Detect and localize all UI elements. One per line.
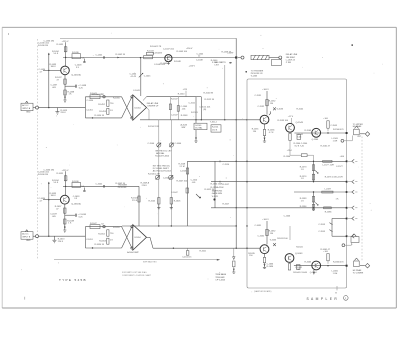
label R-1617 — [223, 204, 230, 206]
page right edge — [395, 27, 397, 308]
resistor R-1613 — [52, 236, 65, 243]
input connector box J2 — [21, 230, 33, 242]
resistor R-1574 — [300, 174, 315, 180]
label R-1508 — [179, 163, 186, 167]
svg-text:C-1631: C-1631 — [255, 225, 262, 227]
wire rail3 — [294, 191, 347, 193]
wire rail1 — [188, 160, 347, 162]
resistor R-1573 — [300, 165, 315, 171]
node op-amp B input + — [131, 226, 133, 228]
node rail A x196 — [195, 119, 196, 120]
label R-1561 — [321, 145, 331, 147]
node rail y248 V2 — [246, 248, 247, 249]
label R-1642 — [116, 183, 126, 185]
value label C-1511 — [189, 102, 196, 104]
wire base B — [49, 199, 61, 201]
svg-text:C-1443: C-1443 — [133, 90, 140, 92]
value label R-1459 — [222, 52, 232, 54]
svg-text:220 K: 220 K — [58, 241, 64, 243]
label C-1565 — [330, 125, 337, 127]
svg-text:150 K: 150 K — [212, 129, 218, 131]
emitter wire A — [64, 75, 65, 99]
svg-text:GATE GEN: GATE GEN — [212, 192, 223, 195]
wire cross A 2 — [122, 97, 132, 118]
label C-1442 — [96, 55, 105, 59]
transistor Q-1534B electrodes — [167, 56, 170, 61]
wire out A vertical2 — [200, 97, 202, 120]
resistor R-1453 — [99, 108, 113, 114]
svg-text:.005: .005 — [52, 216, 57, 218]
label C-1644b — [295, 267, 302, 271]
svg-text:INPUT B: INPUT B — [22, 236, 31, 238]
note parts list — [122, 271, 152, 277]
label R-1520 — [211, 184, 225, 189]
tick rail1 — [219, 160, 221, 162]
svg-text:R-1653: R-1653 — [99, 241, 106, 243]
node output rail box edge — [346, 132, 348, 134]
svg-text:+100: +100 — [323, 251, 328, 253]
switch box S-1511 — [194, 123, 207, 130]
hanging resistor mid A — [169, 97, 171, 120]
svg-text:R-1502 12K: R-1502 12K — [148, 126, 159, 128]
svg-text:V-1533: V-1533 — [277, 108, 284, 110]
svg-text:R-1630 1M: R-1630 1M — [38, 174, 48, 176]
label delay line — [286, 53, 298, 61]
diode V-1633 — [270, 240, 277, 247]
svg-text:C-1565: C-1565 — [330, 125, 337, 127]
resistor R-1636c — [72, 181, 85, 188]
svg-text:DRIVER CF: DRIVER CF — [148, 106, 160, 108]
svg-text:1 UH: 1 UH — [333, 273, 338, 275]
label C-1451 — [86, 110, 93, 112]
resistor R-1647 box — [90, 223, 100, 229]
resistor R-1438 — [64, 90, 75, 96]
svg-text:R-1661 47: R-1661 47 — [321, 249, 331, 251]
value label R-1513 — [191, 112, 198, 114]
value label R-1455 — [113, 97, 120, 99]
svg-text:C-1430 .001: C-1430 .001 — [38, 43, 50, 45]
svg-text:R-1563: R-1563 — [305, 130, 312, 132]
svg-text:SEE PARTS: SEE PARTS — [215, 61, 227, 64]
diode V-1533 — [273, 107, 284, 110]
svg-text:C-1651: C-1651 — [86, 239, 93, 241]
value label C-1577 — [336, 166, 343, 168]
svg-text:V-1633: V-1633 — [270, 240, 277, 242]
label C-1436 — [44, 40, 55, 42]
node rail4 V1 — [236, 207, 237, 208]
svg-text:+225 V: +225 V — [62, 170, 70, 172]
svg-text:R-1547: R-1547 — [171, 99, 178, 101]
svg-text:A-1604 SWP: A-1604 SWP — [127, 251, 139, 254]
page top edge — [2, 26, 396, 28]
value label C-1532 — [258, 106, 265, 108]
stack2 vertical — [313, 192, 315, 211]
svg-text:(B): (B) — [204, 109, 207, 111]
label A-1543 — [181, 123, 188, 128]
svg-text:750: 750 — [110, 103, 114, 105]
node rail A box — [246, 119, 247, 120]
resistor R-1632 — [266, 229, 276, 235]
svg-text:1 K: 1 K — [301, 169, 305, 171]
label C-1446 — [154, 64, 166, 66]
svg-text:R-1644 C-1644: R-1644 C-1644 — [293, 272, 308, 274]
label gnd B — [63, 229, 66, 233]
wire lower output rail — [294, 265, 347, 267]
label R-1433 — [50, 64, 57, 68]
svg-text:Z 186: Z 186 — [286, 62, 292, 64]
arrow H1 — [117, 57, 119, 58]
supply +225V A — [62, 41, 70, 44]
capacitor C-1611 — [182, 248, 192, 258]
supply +22.4 — [287, 150, 293, 152]
title SAMPLER — [307, 297, 338, 301]
supply +100 Q-1564 — [323, 118, 328, 120]
emitter chain lower sampler — [263, 254, 274, 268]
svg-text:R-1430 1M: R-1430 1M — [38, 45, 48, 47]
svg-text:+12 V: +12 V — [288, 116, 294, 118]
svg-text:R-1586: R-1586 — [325, 211, 332, 213]
svg-text:R-1520 220K: R-1520 220K — [211, 184, 223, 186]
wire S-1511 feed — [195, 120, 197, 123]
resistor R-1634s — [52, 176, 67, 184]
svg-text:HF PEAK: HF PEAK — [353, 269, 362, 272]
resistor R-1605 — [170, 198, 181, 204]
svg-text:C-1578: C-1578 — [336, 176, 343, 178]
svg-text:6.25: 6.25 — [79, 216, 84, 218]
svg-text:C-1504: C-1504 — [148, 143, 155, 145]
svg-text:C-1647: C-1647 — [171, 192, 178, 194]
svg-text:C-1514: C-1514 — [223, 164, 230, 166]
svg-text:R-1513: R-1513 — [191, 112, 198, 114]
svg-text:270 K: 270 K — [132, 200, 138, 202]
wire inverter B left — [84, 227, 86, 248]
op-amp U1454 — [133, 95, 147, 121]
wire base A — [49, 69, 61, 71]
svg-text:V-1463: V-1463 — [251, 76, 258, 78]
potentiometer C-1604 — [169, 143, 182, 147]
transistor Q-1434A — [61, 66, 81, 76]
connector J2 jack — [33, 235, 39, 238]
transistor Q-1634A — [60, 195, 81, 205]
emitter parts Q-1643 — [288, 264, 307, 274]
svg-text:4.5-25: 4.5-25 — [131, 76, 138, 78]
wire input B — [39, 235, 86, 237]
svg-text:C-1451: C-1451 — [86, 110, 93, 112]
label C-1445 — [197, 53, 204, 57]
value label C-1632 — [258, 235, 265, 237]
wire out A lower rail — [140, 108, 260, 120]
resistor R-1652 — [98, 230, 114, 236]
trimmer C-1668 — [354, 258, 360, 267]
svg-text:CF V-1663: CF V-1663 — [215, 279, 225, 281]
svg-text:4.7 K: 4.7 K — [269, 132, 274, 134]
resistor R-1436 — [72, 52, 85, 59]
svg-text:AC DC: AC DC — [22, 104, 29, 107]
pin 11 right edge — [346, 234, 358, 238]
label L-1665 — [332, 270, 339, 274]
resistor R-1444 on H1 — [144, 55, 153, 58]
node rail y226 end — [236, 225, 237, 226]
emitter chain upper sampler — [263, 124, 275, 140]
svg-text:R-1459 1K: R-1459 1K — [222, 52, 232, 54]
node rail A delay — [236, 119, 237, 120]
svg-text:C-1511: C-1511 — [189, 102, 196, 104]
svg-text:C-1436 180: C-1436 180 — [44, 40, 55, 42]
svg-text:8.2 K 7-45: 8.2 K 7-45 — [295, 145, 305, 147]
svg-text:R-1448: R-1448 — [174, 61, 181, 63]
svg-text:C-1607 .001: C-1607 .001 — [163, 178, 175, 180]
svg-text:R-1636: R-1636 — [72, 181, 79, 183]
svg-text:C-1611 15: C-1611 15 — [182, 257, 192, 259]
capacitor C-1437 — [51, 85, 58, 89]
value label R-1663 — [305, 262, 312, 264]
wire x224 drop — [224, 65, 226, 120]
svg-text:DELAY LINE: DELAY LINE — [286, 53, 298, 56]
supply +12 Q-1543 — [288, 116, 294, 123]
node inverter B — [92, 247, 93, 248]
label C-1510 — [191, 180, 198, 184]
node gate mesh — [213, 198, 215, 200]
label R-1517 — [223, 184, 230, 186]
connector J1 jack — [33, 106, 39, 109]
trimmer C-1595 — [318, 230, 332, 233]
node lower rail box edge — [346, 265, 348, 267]
svg-text:R-1511: R-1511 — [212, 127, 219, 129]
transistor Q-1534B — [153, 52, 172, 61]
svg-text:Q-1543: Q-1543 — [296, 122, 304, 124]
wire rail4 — [211, 207, 347, 209]
svg-text:INPUT A: INPUT A — [22, 107, 30, 110]
transistor Q-1543 — [286, 122, 304, 132]
svg-text:C-1450: C-1450 — [87, 100, 94, 102]
resistor R-1637 — [55, 206, 66, 213]
value label C-1547 — [171, 114, 178, 116]
svg-text:C-1448: C-1448 — [196, 60, 203, 62]
svg-text:180 K: 180 K — [51, 195, 57, 197]
svg-text:TO LOWER: TO LOWER — [353, 272, 364, 274]
wire S-1511 down — [195, 130, 196, 140]
trimmer box lower — [351, 234, 359, 243]
emitter wire B — [64, 204, 65, 228]
svg-text:R-1612 1K: R-1612 1K — [205, 189, 215, 191]
label trigger pickoff — [251, 70, 264, 77]
wire rail2 — [211, 181, 347, 183]
label C-1630 — [38, 172, 50, 177]
label lower defl — [353, 272, 364, 274]
svg-text:1 K: 1 K — [110, 110, 114, 112]
label C-1578 — [336, 176, 343, 178]
svg-text:C-1447 .001: C-1447 .001 — [163, 48, 175, 50]
connector P-1098 — [269, 56, 282, 59]
svg-text:47: 47 — [57, 79, 60, 81]
wire sweep line — [54, 259, 219, 260]
svg-text:R-1442 1K: R-1442 1K — [116, 54, 126, 56]
stack1 vertical — [313, 161, 315, 181]
svg-text:C-1604: C-1604 — [175, 143, 182, 145]
emitter stub Q-1534B — [161, 62, 170, 65]
svg-text:150: 150 — [249, 255, 253, 257]
svg-text:HF PEAK: HF PEAK — [353, 125, 362, 128]
time base trigger chain — [233, 248, 235, 270]
wire +22 link lower — [289, 226, 291, 240]
label hf comp lower — [353, 269, 362, 272]
transistor Q-1434A electrodes — [64, 68, 67, 73]
node collector A — [65, 57, 66, 58]
wire pot 1 drop — [158, 120, 160, 226]
wire out A jog — [196, 96, 201, 98]
value label C-1647 — [171, 192, 178, 194]
node rail y248 V1 — [236, 248, 237, 249]
label hf comp — [353, 125, 362, 128]
supply +100 upper — [262, 89, 269, 91]
label R-1533 — [278, 120, 289, 122]
wire collector upper sampler — [266, 91, 268, 115]
termination box — [271, 59, 281, 65]
svg-text:C-1630 .001: C-1630 .001 — [38, 172, 50, 174]
svg-text:R-1505: R-1505 — [149, 200, 156, 202]
label C-1611b — [200, 250, 207, 252]
capacitor C-1549 — [177, 97, 188, 120]
value label X2 — [101, 224, 104, 226]
label L-1565 — [332, 138, 339, 142]
svg-text:GND: GND — [26, 240, 31, 242]
svg-text:R-1584: R-1584 — [300, 206, 307, 208]
wire out A upper — [143, 97, 196, 101]
svg-text:1 K: 1 K — [301, 201, 305, 203]
transistor Q-1535 electrodes — [263, 117, 266, 122]
label R-1502 — [148, 126, 159, 128]
wiper arrow stack1 — [315, 171, 318, 174]
CRT dashed line — [361, 137, 363, 262]
pin 5 right edge — [346, 190, 358, 194]
tick rail2 — [219, 181, 221, 183]
svg-text:R-1611: R-1611 — [200, 250, 207, 252]
svg-text:ADJ BAL: ADJ BAL — [156, 152, 165, 155]
label R-1663 — [254, 290, 272, 293]
svg-text:C-1593: C-1593 — [318, 224, 325, 226]
svg-text:R-1605: R-1605 — [174, 200, 181, 202]
svg-text:V-1454: V-1454 — [134, 107, 141, 109]
svg-text:Q-1434 A: Q-1434 A — [71, 73, 81, 76]
svg-text:5.6 K: 5.6 K — [54, 53, 59, 55]
potentiometer R-1504 — [155, 175, 159, 179]
wire collector supply A — [65, 44, 67, 66]
note see parts list — [215, 61, 232, 67]
value label C-1448 — [196, 60, 203, 62]
node stack tops — [313, 161, 314, 209]
value label R-1612 — [205, 189, 215, 191]
wire cross B 1 — [122, 227, 132, 248]
wire +22 link — [290, 141, 294, 156]
label J-1097 — [227, 53, 234, 55]
svg-text:1 UH: 1 UH — [333, 141, 338, 143]
svg-text:3.3: 3.3 — [76, 67, 80, 69]
gain switch node B — [103, 225, 105, 227]
svg-text:C-1546: C-1546 — [284, 215, 291, 217]
resistor box R-1511 — [211, 125, 221, 132]
resistor R-1509A drop — [138, 182, 150, 226]
transistor Q-1535 upper sampler — [252, 115, 269, 133]
transistor Q-1635 electrodes — [263, 247, 266, 252]
label C-1642 — [96, 183, 105, 187]
label R-1548 — [181, 115, 188, 117]
value label R-1566 — [333, 129, 344, 131]
svg-text:150: 150 — [253, 131, 257, 133]
label output cf B — [127, 251, 139, 254]
svg-text:1 K: 1 K — [110, 240, 114, 242]
svg-text:R-1636: R-1636 — [267, 266, 274, 268]
value label R-1449 — [177, 51, 188, 53]
value label R-1547 — [171, 99, 178, 101]
wire cross A 1 — [122, 97, 132, 118]
svg-text:R-1635: R-1635 — [57, 173, 64, 175]
label C-1631 — [255, 225, 262, 227]
svg-text:C-1642: C-1642 — [96, 183, 103, 185]
label C-1636b — [44, 169, 55, 171]
svg-text:R-1533 100: R-1533 100 — [278, 120, 289, 122]
capacitor C-1438 — [65, 85, 87, 90]
svg-text:C-1547: C-1547 — [171, 114, 178, 116]
svg-text:R-1548: R-1548 — [181, 115, 188, 117]
resistor R-1584 — [300, 204, 315, 210]
svg-text:750: 750 — [110, 233, 114, 235]
pin 9 right edge — [346, 217, 358, 221]
label C-1633 — [73, 196, 80, 200]
svg-text:TYPE 545B: TYPE 545B — [59, 278, 87, 282]
label C-1434 — [39, 69, 46, 73]
deflection plate lower — [360, 263, 370, 268]
label R-1446 — [211, 60, 218, 64]
value label X2 — [101, 94, 104, 96]
label C-1634 — [39, 198, 46, 202]
svg-text:T-150-1: T-150-1 — [210, 122, 218, 124]
label R-1540 — [178, 94, 185, 96]
svg-text:(SAMPLER BOARD): (SAMPLER BOARD) — [254, 290, 272, 293]
svg-text:S A M P L E R: S A M P L E R — [307, 297, 338, 301]
label trig chain gnd — [232, 271, 235, 273]
node input B — [48, 236, 49, 237]
node input A — [48, 107, 49, 108]
supply +100 lower — [262, 219, 269, 221]
page bottom edge — [2, 307, 396, 309]
bypass loop lower — [342, 243, 351, 247]
trimmer C-1568 — [354, 126, 360, 135]
svg-text:2.2 M: 2.2 M — [180, 166, 185, 168]
capacitor C-1637 — [50, 214, 57, 218]
node base B — [43, 199, 50, 200]
resistor R-1505 — [149, 198, 161, 204]
resistor R-1665 — [327, 254, 329, 264]
node inverter A — [92, 117, 93, 118]
svg-text:R-1541 8K: R-1541 8K — [204, 93, 214, 95]
node rail1 V1 — [236, 161, 237, 162]
svg-text:V-1654: V-1654 — [134, 237, 141, 239]
svg-text:C-1577: C-1577 — [336, 166, 343, 168]
wire +225 rail to delay line — [60, 37, 236, 39]
svg-text:.001: .001 — [192, 182, 197, 184]
label R-1454 — [95, 115, 105, 117]
svg-text:R-1647: R-1647 — [90, 223, 97, 225]
svg-text:7-45: 7-45 — [297, 137, 302, 139]
svg-text:R-1504 R-1604: R-1504 R-1604 — [155, 156, 170, 158]
scan noise specks — [21, 33, 383, 293]
transistor Q-1543 electrodes — [289, 126, 292, 131]
label C-1450 — [87, 100, 94, 102]
resistor R-1638 — [64, 219, 75, 225]
node rail y248 mid — [173, 248, 174, 249]
label C-1430 — [38, 43, 50, 48]
label R-1635b — [57, 173, 64, 175]
